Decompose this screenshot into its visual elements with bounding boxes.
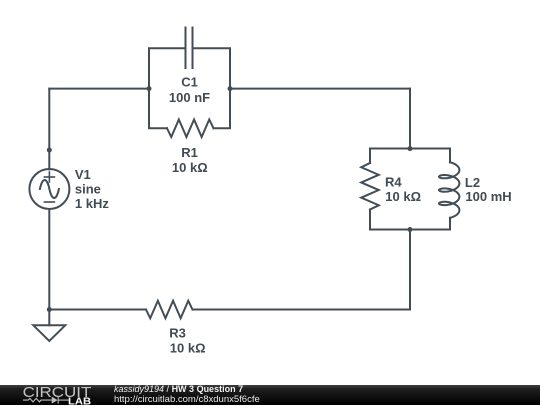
wire right column bottom vertical xyxy=(409,230,411,310)
voltage source V1 plus sign xyxy=(44,172,54,182)
resistor R1 branch wires xyxy=(149,89,167,129)
svg-text:LAB: LAB xyxy=(68,395,91,405)
R4 L2 parallel block bottom wire xyxy=(370,229,450,231)
junction node top-right of C1 block xyxy=(228,86,233,91)
junction node top-left of C1 block xyxy=(147,86,152,91)
svg-text:10 kΩ: 10 kΩ xyxy=(172,160,208,175)
svg-text:R1: R1 xyxy=(181,145,198,160)
voltage source V1 minus sign xyxy=(44,201,54,203)
svg-text:10 kΩ: 10 kΩ xyxy=(170,340,206,355)
junction node at ground xyxy=(47,307,52,312)
svg-text:R4: R4 xyxy=(385,175,402,190)
svg-text:V1: V1 xyxy=(75,167,91,182)
junction node bottom of R4-L2 block xyxy=(408,227,413,232)
svg-text:http://circuitlab.com/c8xdunx5: http://circuitlab.com/c8xdunx5f6cfe xyxy=(114,394,260,405)
svg-text:100 mH: 100 mH xyxy=(465,189,511,204)
CircuitLab logo squiggle resistor-diode xyxy=(23,396,69,403)
resistor R1 zigzag xyxy=(167,120,214,138)
wire left column from top wire down to V1 xyxy=(48,89,50,170)
inductor L2 lead wires xyxy=(449,149,451,163)
svg-text:kassidy9194 / HW 3 Question 7: kassidy9194 / HW 3 Question 7 xyxy=(114,385,243,394)
resistor R4 branch wires xyxy=(369,149,371,164)
svg-text:C1: C1 xyxy=(181,75,198,90)
capacitor C1 plates xyxy=(185,28,187,69)
svg-text:10 kΩ: 10 kΩ xyxy=(385,189,421,204)
voltage source V1 circle xyxy=(29,169,69,209)
svg-text:L2: L2 xyxy=(465,175,480,190)
wire from V1 bottom down to bottom node xyxy=(48,209,50,310)
svg-text:sine: sine xyxy=(75,182,101,197)
resistor R4 zigzag xyxy=(361,163,379,210)
terminal node V1 top xyxy=(47,148,52,153)
R4 L2 parallel block top wire xyxy=(370,148,450,150)
svg-text:100 nF: 100 nF xyxy=(169,90,210,105)
svg-text:R3: R3 xyxy=(169,326,186,341)
svg-text:1 kHz: 1 kHz xyxy=(75,196,109,211)
wire bottom horizontal left of R3 xyxy=(49,309,146,311)
wire top horizontal from C1 block to right column xyxy=(230,88,410,90)
junction node top of R4-L2 block xyxy=(408,146,413,151)
voltage source V1 sine wave xyxy=(40,180,59,198)
wire right column top vertical xyxy=(409,89,411,149)
resistor R3 zigzag xyxy=(146,301,193,319)
capacitor C1 loop wires xyxy=(149,48,185,88)
wire bottom horizontal right of R3 xyxy=(193,309,411,311)
inductor L2 coil xyxy=(439,162,459,218)
ground symbol xyxy=(48,310,50,326)
footer bar xyxy=(0,385,540,406)
wire top-left horizontal from V1 column to C1 block xyxy=(49,88,149,90)
